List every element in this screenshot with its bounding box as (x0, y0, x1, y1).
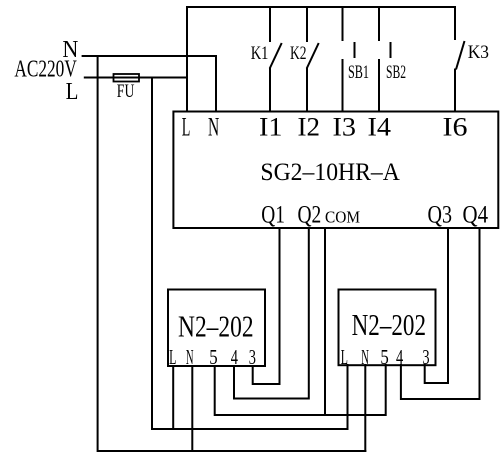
svg-text:K3: K3 (468, 42, 489, 63)
wire: COM bus to terminals 5 (215, 364, 386, 415)
svg-text:I4: I4 (368, 113, 392, 142)
PLC box SG2-10HR-A (173, 112, 498, 229)
fuse FU (114, 74, 140, 82)
svg-text:I3: I3 (333, 113, 357, 142)
svg-text:COM: COM (325, 208, 360, 227)
svg-text:5: 5 (380, 345, 388, 369)
svg-text:Q4: Q4 (463, 202, 489, 229)
svg-text:I6: I6 (443, 113, 468, 142)
svg-text:SB1: SB1 (348, 62, 369, 83)
svg-text:N: N (208, 113, 219, 142)
svg-text:N2–202: N2–202 (178, 308, 254, 343)
wire: box1 terminal N down (191, 365, 193, 452)
wire: L supply line (84, 77, 187, 79)
wire: L long drop left side (151, 77, 153, 431)
wire: top L bus (186, 6, 455, 8)
wire: Q1 to box1 terminal 3 (253, 228, 280, 384)
wire: Q3 to box2 terminal 3 (425, 228, 448, 383)
svg-text:K2: K2 (290, 44, 307, 64)
svg-text:4: 4 (396, 345, 403, 369)
wire: N long drop left side (97, 55, 99, 452)
svg-text:I2: I2 (298, 113, 321, 142)
wire: box2 terminal L down (347, 364, 349, 430)
wire: COM vertical (324, 228, 326, 416)
svg-text:L: L (66, 79, 79, 105)
wire: N supply line (82, 55, 217, 57)
svg-text:K1: K1 (251, 44, 269, 64)
relay box N2-202 #2 (339, 290, 436, 366)
wire: box2 terminal N down (364, 364, 366, 452)
wire: box1 terminal L down (172, 365, 174, 430)
svg-text:FU: FU (117, 81, 135, 102)
wire: L bottom bus (152, 428, 349, 430)
contact K1 (270, 6, 282, 113)
svg-text:Q2: Q2 (298, 202, 322, 229)
contact K2 (307, 6, 319, 113)
wire: N corner down to N terminal (215, 55, 217, 113)
svg-text:Q3: Q3 (428, 202, 453, 229)
wire: Q4 to box2 terminal 4 (401, 228, 480, 399)
svg-text:SB2: SB2 (386, 62, 406, 83)
wire: L bus drop to L terminal (186, 6, 188, 113)
relay box N2-202 #1 (168, 290, 265, 367)
wire: Q2 to box1 terminal 4 (234, 228, 309, 399)
svg-text:5: 5 (209, 345, 217, 369)
svg-text:SG2–10HR–A: SG2–10HR–A (260, 159, 400, 186)
svg-text:3: 3 (422, 345, 429, 369)
svg-text:N2–202: N2–202 (352, 307, 426, 342)
svg-text:I1: I1 (259, 113, 283, 142)
contact K3 (455, 6, 465, 113)
svg-text:Q1: Q1 (261, 202, 285, 229)
wire: N bottom bus (98, 450, 367, 452)
svg-text:L: L (182, 113, 191, 142)
pushbutton SB2 (379, 6, 391, 113)
pushbutton SB1 (343, 6, 355, 113)
